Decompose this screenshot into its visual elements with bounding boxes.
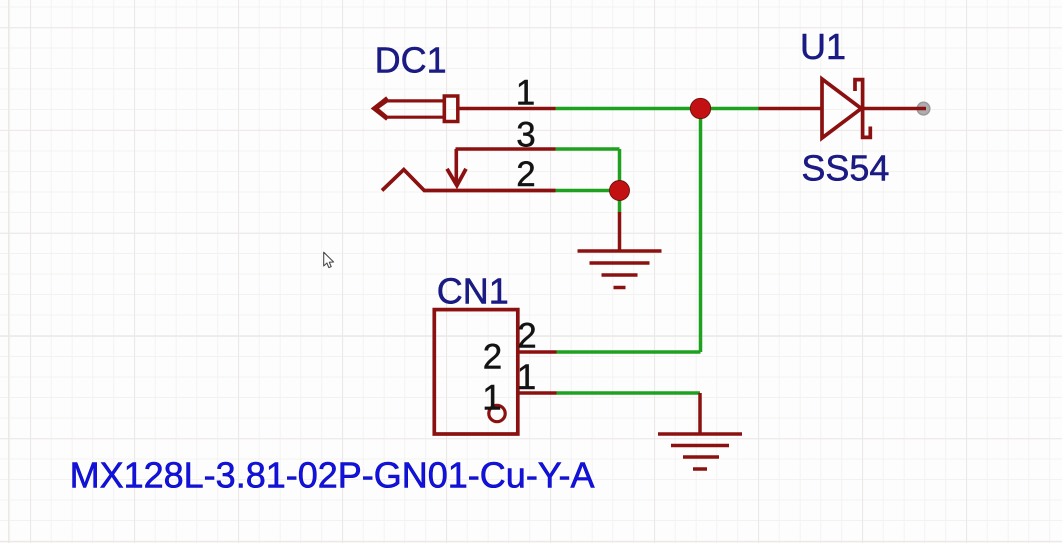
connector DC1 plug tip chevron [374,98,388,119]
connector DC1 plug body [377,101,445,117]
svg-text:SS54: SS54 [801,148,889,189]
ground GND2 lead [698,393,702,434]
diode U1 triangle [822,79,861,138]
wire DC1 pin1 to diode anode (net VIN) [556,107,759,111]
svg-text:U1: U1 [800,26,846,67]
junction A [690,98,710,118]
svg-text:MX128L-3.81-02P-GN01-Cu-Y-A: MX128L-3.81-02P-GN01-Cu-Y-A [70,455,595,496]
pin DC1.1 [458,107,556,111]
ground GND1 bars [578,251,662,288]
pin DC1.2 zigzag contact [382,170,556,191]
wire CN1 pin1 to ground lead [557,391,701,395]
svg-text:1: 1 [516,74,535,113]
svg-text:2: 2 [517,317,536,356]
pin number 2 (CN1) [517,317,536,356]
svg-text:2: 2 [483,338,502,377]
connector DC1 plug collar [444,96,458,122]
diode U1 anode pin [759,107,823,111]
open wire end dot [917,102,930,115]
wire DC1 pin2 to junction B [556,189,620,193]
designator DC1 [375,40,447,81]
pin CN1.1 [518,391,557,395]
connector CN1 body [434,310,518,434]
svg-text:2: 2 [516,155,535,194]
svg-text:3: 3 [516,116,535,155]
pin number 2 (DC1) [516,155,535,194]
ground GND2 bars [658,434,742,469]
diode U1 schottky cathode bar [855,80,870,138]
svg-text:CN1: CN1 [437,271,509,312]
junction B [610,181,630,201]
DC1 switch arrow head [447,169,466,186]
mouse cursor [324,252,334,267]
wire pin3 down to junction B [618,149,622,191]
DC1 switch actuator bar [454,149,458,184]
CN1 pin1 indicator circle [489,405,505,421]
pin CN1.2 [518,350,557,354]
CN1 inside pin name 1 [482,379,501,418]
wire DC1 pin3 horizontal [556,147,620,151]
value SS54 [801,148,889,189]
wire horizontal to CN1 pin2 [557,350,701,354]
pin DC1.3 [456,147,556,151]
pin number 3 (DC1) [516,116,535,155]
CN1 inside pin name 2 [483,338,502,377]
svg-text:1: 1 [482,379,501,418]
svg-text:DC1: DC1 [375,40,447,81]
ground GND1 lead [618,212,622,251]
wire junction B down to ground lead [618,191,622,214]
designator CN1 [437,271,509,312]
svg-text:1: 1 [517,358,536,397]
wire junction A down to CN1 pin2 level [699,109,703,353]
part number label MX128L-3.81-02P-GN01-Cu-Y-A [70,455,595,496]
pin number 1 (CN1) [517,358,536,397]
designator U1 [800,26,846,67]
pin number 1 (DC1) [516,74,535,113]
diode U1 cathode pin [863,107,926,111]
